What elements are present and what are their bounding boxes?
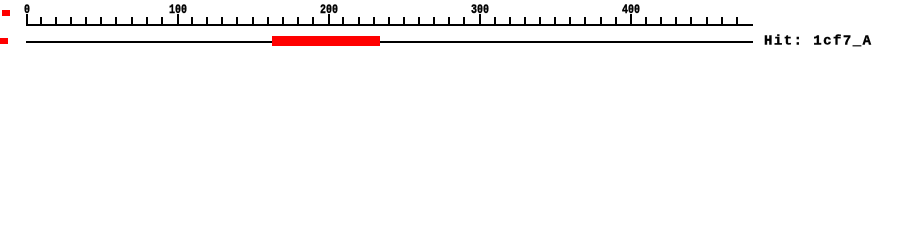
ruler major tick 400: [630, 14, 632, 26]
ruler major tick 200: [328, 14, 330, 26]
svg-text:0: 0: [24, 2, 30, 17]
svg-text:300: 300: [471, 2, 489, 17]
ruler minor ticks: [40, 17, 738, 26]
svg-text:Hit: 1cf7_A: Hit: 1cf7_A: [764, 34, 872, 50]
ruler major tick 100: [177, 14, 179, 26]
hit bar (aligned region 163-234): [272, 36, 380, 46]
svg-text:400: 400: [622, 2, 640, 17]
query line: [26, 41, 753, 43]
svg-text:100: 100: [169, 2, 187, 17]
ruler baseline: [26, 24, 753, 26]
svg-text:200: 200: [320, 2, 338, 17]
ruler major tick 0: [26, 14, 28, 26]
legend patch top-left: [2, 10, 10, 16]
ruler major tick 300: [479, 14, 481, 26]
background: [0, 0, 900, 60]
legend patch line-start: [0, 38, 8, 44]
